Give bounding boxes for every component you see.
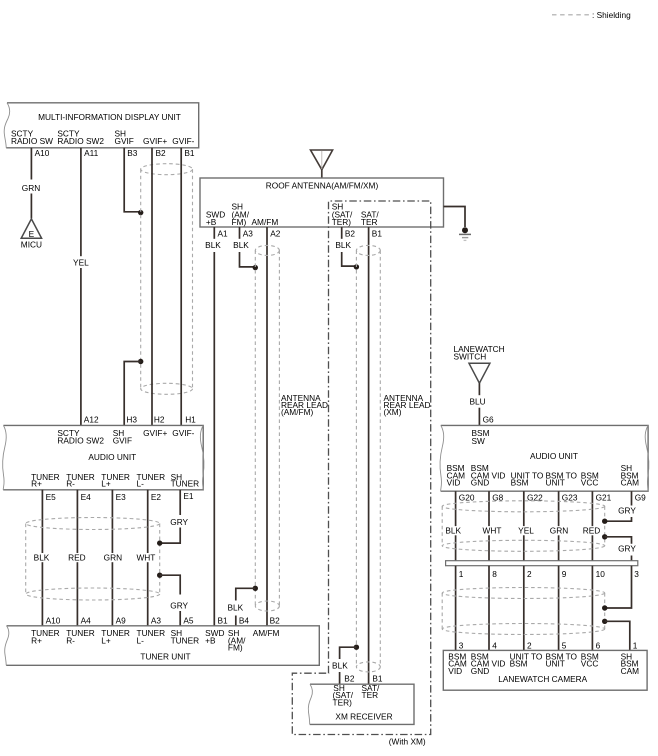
svg-text:G6: G6 [483,415,494,425]
svg-text:CAM: CAM [621,666,640,676]
wire shield lower to camera 1 [605,621,630,650]
shield capsule AM/FM lead [255,245,279,611]
wire connector to camera col4 [558,566,560,651]
svg-text:GVIF: GVIF [115,136,134,146]
svg-text:B4: B4 [239,616,250,626]
box MULTI-INFORMATION DISPLAY UNIT [6,103,199,148]
wire RED E4 to tuner A4 [76,490,78,626]
shield capsule bsm cam leads upper [442,501,605,552]
svg-text:AM/FM: AM/FM [253,628,280,638]
box TUNER UNIT [6,626,319,666]
svg-text:9: 9 [562,569,567,579]
svg-text:R+: R+ [31,635,42,645]
svg-text:(With XM): (With XM) [389,736,426,746]
box XM RECEIVER [310,684,414,724]
svg-text:VCC: VCC [581,659,599,669]
shield capsule SAT/TER lead [356,245,380,672]
wire B3 to shield junction [124,148,141,212]
svg-text:10: 10 [596,569,606,579]
svg-text:BSM: BSM [510,659,528,669]
svg-text:BSM: BSM [511,478,529,488]
svg-text:R-: R- [66,635,75,645]
node shield junction cam top [602,605,607,610]
wire shield junction to tuner B4 [236,588,256,600]
wire connector to camera col2 [488,566,490,651]
svg-text:ROOF ANTENNA(AM/FM/XM): ROOF ANTENNA(AM/FM/XM) [266,180,379,190]
svg-text:BLK: BLK [445,525,461,535]
switch symbol lanewatch [469,363,490,383]
svg-text:RADIO SW2: RADIO SW2 [57,136,104,146]
wire GRY shield to connector 3 [605,537,632,544]
svg-text:RADIO SW2: RADIO SW2 [57,436,104,446]
shield capsule GVIF [141,164,193,395]
svg-text:WHT: WHT [483,525,502,535]
legend shielding dashed sample [552,14,589,16]
pin A1 [213,227,215,239]
svg-text:BLK: BLK [205,240,221,250]
svg-text:A12: A12 [84,414,99,424]
ground MICU [21,219,41,238]
wire YEL G22 to camera 2 [523,491,525,561]
svg-text:YEL: YEL [73,257,89,267]
svg-text:TUNER: TUNER [171,479,200,489]
svg-text:UNIT: UNIT [546,478,565,488]
svg-text:MICU: MICU [21,240,42,250]
svg-text:FM): FM) [228,643,243,653]
svg-text:RADIO SW: RADIO SW [11,136,53,146]
svg-text:SWITCH: SWITCH [454,352,487,362]
svg-text:A3: A3 [151,616,162,626]
svg-text:GVIF: GVIF [113,436,132,446]
svg-text:VCC: VCC [581,478,599,488]
wire GRN G23 to camera 5 [558,491,560,561]
svg-text:G21: G21 [596,492,612,502]
node shield junction G9 [602,519,607,524]
shield capsule bsm cam leads lower [442,588,605,635]
svg-text:TER: TER [362,690,379,700]
node shield junction sat bottom [354,645,359,650]
svg-text:AUDIO UNIT: AUDIO UNIT [88,452,136,462]
wire connector to camera col1 [455,566,457,651]
svg-text:6: 6 [596,641,601,651]
svg-text:BLK: BLK [233,240,249,250]
svg-text:H1: H1 [185,414,196,424]
svg-text:A11: A11 [84,148,99,158]
svg-text:A3: A3 [243,229,254,239]
svg-text:GRY: GRY [170,601,188,611]
svg-text:B2: B2 [345,229,356,239]
svg-text:A2: A2 [270,229,281,239]
svg-text:R+: R+ [31,479,42,489]
enclosure dash-dot With XM [292,201,430,735]
svg-text:VID: VID [447,478,461,488]
svg-text:A1: A1 [218,229,229,239]
node shield junction E1 [157,540,162,545]
svg-text:1: 1 [459,569,464,579]
svg-text:AM/FM: AM/FM [252,217,279,227]
svg-text:VID: VID [448,666,462,676]
node shield junction cam bottom [602,619,607,624]
wire GRN A10 to MICU ground [30,194,32,219]
wire SAT/TER B1 to XM receiver [368,227,370,684]
wire BLK A3 to shield junction [240,252,256,267]
box LANEWATCH CAMERA [443,650,647,690]
wire shield junction to H3 [124,362,141,426]
wire shield junction to XM B2 [340,647,357,659]
svg-text:BLU: BLU [470,397,486,407]
wire BLK B2 to shield junction [342,252,357,266]
svg-text:G23: G23 [562,492,578,502]
svg-text:GRY: GRY [618,543,636,553]
shield capsule tuner leads [26,518,160,601]
svg-text:A9: A9 [116,616,127,626]
svg-text:E2: E2 [151,492,162,502]
svg-text:H3: H3 [126,414,137,424]
svg-text:B2: B2 [270,616,281,626]
svg-text:MULTI-INFORMATION DISPLAY UNIT: MULTI-INFORMATION DISPLAY UNIT [38,112,181,122]
svg-text:SW: SW [472,436,486,446]
pin B2 roof [341,227,343,239]
svg-text:BLK: BLK [227,602,243,612]
wire GVIF+ B2 to H2 [151,148,153,426]
svg-text:E3: E3 [116,492,127,502]
svg-text:GRY: GRY [170,517,188,527]
svg-text:TER): TER) [332,217,352,227]
wire GVIF- B1 to H1 [180,148,182,426]
svg-text:XM RECEIVER: XM RECEIVER [335,712,392,722]
node shield bottom junction H3 [138,359,143,364]
svg-text:2: 2 [527,641,532,651]
wire roof antenna ground [444,207,466,228]
svg-text:GND: GND [471,478,489,488]
svg-text:GVIF+: GVIF+ [143,428,167,438]
svg-text:E1: E1 [183,491,194,501]
wire AM/FM A2 to tuner B2 [266,227,268,626]
svg-text:A5: A5 [183,616,194,626]
svg-text:1: 1 [633,641,638,651]
svg-text:GVIF+: GVIF+ [143,136,167,146]
svg-text:R-: R- [66,479,75,489]
svg-text:3: 3 [459,641,464,651]
svg-text:L+: L+ [101,479,111,489]
svg-text:TUNER: TUNER [171,635,200,645]
svg-text:3: 3 [634,569,639,579]
svg-text:(XM): (XM) [384,407,402,417]
svg-text:G9: G9 [635,492,646,502]
pin A3 [239,227,241,239]
node shield junction sat top [354,264,359,269]
wire BLK G20 to camera 3 [455,491,457,561]
svg-text:GRY: GRY [618,505,636,515]
svg-text:WHT: WHT [136,552,155,562]
wire WHT E2 to tuner A3 [147,490,149,626]
svg-text:GRN: GRN [22,183,40,193]
svg-text:LANEWATCH CAMERA: LANEWATCH CAMERA [498,674,587,684]
svg-text:B2: B2 [344,674,355,684]
svg-text:2: 2 [527,569,532,579]
wire sh connector 3 to shield lower [605,566,632,608]
svg-text:G20: G20 [459,492,475,502]
wire BLU lanewatch switch to G6 [478,383,480,395]
svg-text:L-: L- [137,479,145,489]
svg-text:(AM/FM): (AM/FM) [281,407,313,417]
svg-text:+B: +B [205,635,216,645]
svg-text:E: E [29,229,35,239]
svg-text:8: 8 [492,569,497,579]
svg-text:AUDIO UNIT: AUDIO UNIT [530,451,578,461]
wire BLK A1 SWD+B to tuner B1 [213,252,215,626]
svg-text:+B: +B [206,217,217,227]
svg-text:GVIF-: GVIF- [172,428,194,438]
svg-text:L+: L+ [101,635,111,645]
svg-text:B1: B1 [184,148,195,158]
wire YEL A11 to A12 [80,148,82,256]
node shield junction sh lower [602,534,607,539]
box AUDIO UNIT right [441,425,648,491]
svg-text:E4: E4 [81,492,92,502]
svg-text:B3: B3 [127,148,138,158]
svg-text:5: 5 [562,641,567,651]
svg-text:BLK: BLK [34,552,50,562]
wire GRN E3 to tuner A9 [111,490,113,626]
ground roof antenna [462,227,468,233]
node shield junction A5 [157,573,162,578]
node shield top junction B3 [138,210,143,215]
svg-text:B2: B2 [156,148,167,158]
node shield junction B4 [253,586,258,591]
svg-text:RED: RED [583,525,601,535]
svg-text:RED: RED [68,552,86,562]
box AUDIO UNIT left [3,425,203,489]
svg-text:GRN: GRN [104,552,122,562]
svg-text:TER: TER [361,217,378,227]
svg-text:CAM: CAM [621,478,640,488]
node shield junction A3 [253,265,258,270]
svg-text:TUNER UNIT: TUNER UNIT [140,652,190,662]
svg-text:L-: L- [137,635,145,645]
svg-text:GRN: GRN [550,525,568,535]
wire GRY G9 to shield upper [631,491,633,505]
antenna symbol roof antenna [311,150,333,170]
svg-text:GND: GND [471,666,489,676]
box ROOF ANTENNA(AM/FM/XM) [200,178,444,227]
wire RED G21 to camera 6 [591,491,593,561]
svg-text:UNIT: UNIT [546,659,565,669]
connector inline bar [446,561,638,566]
svg-text:H2: H2 [154,414,165,424]
svg-text:BLK: BLK [335,240,351,250]
pin A10 [30,148,32,180]
svg-text:FM): FM) [232,217,247,227]
svg-text:4: 4 [492,641,497,651]
svg-text:YEL: YEL [518,525,534,535]
wire connector to camera col5 [591,566,593,651]
wire GRY shield to tuner A5 [160,575,181,594]
svg-text:B1: B1 [218,616,229,626]
svg-text:: Shielding: : Shielding [592,10,631,20]
svg-text:A10: A10 [35,148,50,158]
svg-text:B1: B1 [372,229,383,239]
svg-text:GVIF-: GVIF- [172,136,194,146]
svg-text:TER): TER) [333,697,353,707]
wire GRY E1 to shield [179,490,181,515]
wire BLK E5 to tuner A10 [41,490,43,626]
svg-text:BLK: BLK [332,660,348,670]
wire connector to camera col3 [523,566,525,651]
svg-text:A4: A4 [81,616,92,626]
wire WHT G8 to camera 4 [488,491,490,561]
svg-text:A10: A10 [46,616,61,626]
svg-text:E5: E5 [46,492,57,502]
